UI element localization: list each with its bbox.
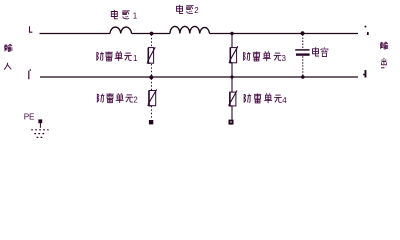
svg-text:1: 1 — [133, 54, 138, 63]
svg-text:1: 1 — [133, 11, 138, 20]
svg-text:3: 3 — [282, 54, 287, 63]
svg-text:2: 2 — [194, 6, 199, 15]
svg-text:4: 4 — [282, 96, 287, 105]
svg-text:2: 2 — [133, 96, 138, 105]
svg-text:PE: PE — [24, 113, 35, 122]
